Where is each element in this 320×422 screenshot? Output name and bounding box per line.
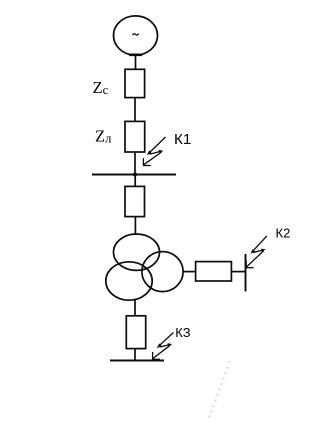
junction on bus 1: [133, 173, 136, 176]
generator G: [114, 16, 158, 55]
wire generator to Zc: [135, 55, 137, 70]
svg-text:К2: К2: [276, 226, 291, 241]
resistor bottom branch: [126, 316, 145, 349]
generator terminal dash: [129, 53, 142, 56]
scan artifact dotted line: [208, 361, 230, 418]
wire transformer to right resistor: [183, 271, 196, 273]
transformer T1 winding 1 (top): [114, 234, 160, 270]
transformer T1 winding 2 (right): [142, 252, 183, 292]
svg-text:К1: К1: [174, 131, 191, 148]
generator tilde mark: [133, 34, 139, 36]
transformer T1 winding 3 (bottom left): [106, 262, 152, 300]
wire reactor to transformer: [134, 217, 136, 235]
resistor Zл: [125, 121, 145, 152]
svg-text:КЗ: КЗ: [175, 325, 190, 340]
fault arrow K3: [152, 333, 173, 360]
resistor right branch: [196, 262, 232, 281]
fault arrow K2: [246, 236, 267, 268]
bus 2 (vertical): [245, 254, 247, 292]
wire transformer to bottom resistor: [134, 300, 136, 316]
wire right resistor to bus 2: [231, 271, 245, 273]
wire Zc to Zl: [134, 98, 136, 122]
resistor Zc: [125, 69, 145, 97]
wire Zл to bus 1: [134, 152, 136, 175]
bus 1: [92, 174, 176, 176]
wire bottom resistor to bus 3: [134, 349, 136, 361]
fault arrow K1: [143, 137, 165, 166]
bus 3: [110, 360, 164, 362]
wire bus 1 to reactor: [134, 175, 136, 187]
resistor (reactor) below bus 1: [125, 186, 145, 216]
